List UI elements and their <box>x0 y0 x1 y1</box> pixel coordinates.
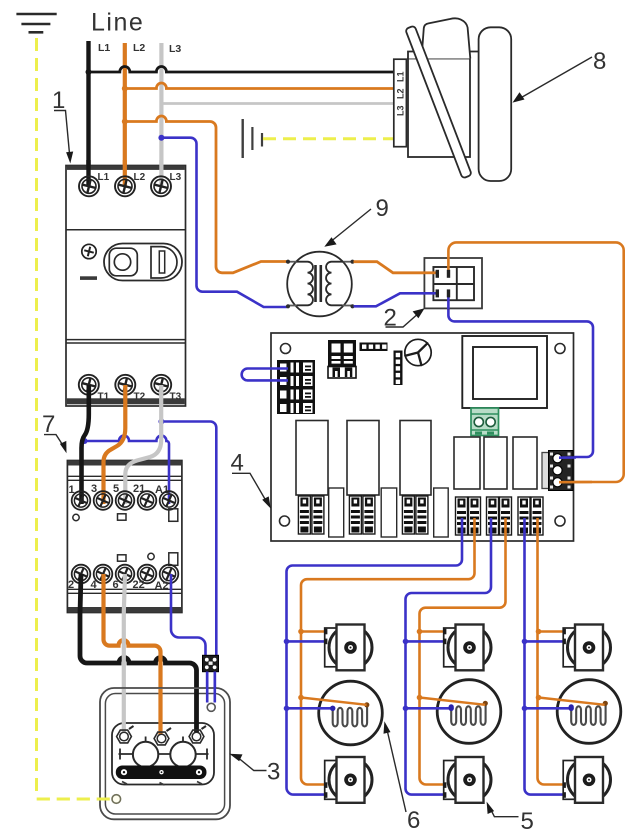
board: mid rect C <box>513 437 537 489</box>
board: relay 2 <box>347 421 379 496</box>
contactor 7: body <box>67 461 181 613</box>
contactor 7: top bar <box>68 461 181 466</box>
breaker terminal labels T1 T2 T3 <box>98 392 182 403</box>
wire: blue tap on gray to far right down (to flange plug) <box>161 422 216 657</box>
wire: L3 feed into screw <box>159 160 163 186</box>
wire: blue transformer to connector 2 <box>354 293 438 306</box>
svg-text:L2: L2 <box>134 172 146 183</box>
connector 2: inner cross box <box>433 267 474 300</box>
breaker 1: switch right button <box>151 247 177 278</box>
svg-text:T3: T3 <box>170 392 182 403</box>
element flange 3: plate <box>112 723 214 785</box>
breaker screw L2 <box>115 176 135 196</box>
element flange 3: hex nut right (black wire) <box>189 726 206 743</box>
board: mid rect B <box>484 437 507 489</box>
board: mid rect A <box>454 437 480 489</box>
wire: L2 feed into screw <box>123 160 127 186</box>
board mounting hole BL <box>280 516 290 526</box>
wire: blue into heater col3 <box>525 707 572 710</box>
board: top connector <box>328 340 356 378</box>
junction dot L2 <box>122 86 128 92</box>
breaker screw T2 <box>115 375 135 395</box>
wire: gray into left nut <box>122 689 126 733</box>
svg-text:L3: L3 <box>169 43 181 55</box>
contactor screw A1 <box>160 491 179 510</box>
contactor marks lower <box>118 555 127 561</box>
breaker 1: top bar <box>67 166 185 170</box>
wire: blue board out 3 to column 3 <box>525 518 576 795</box>
element flange 3: screw tips below bar <box>122 782 202 786</box>
wire: orange slant into heater col1 <box>301 698 367 705</box>
wire: blue board out 1 to column 1 <box>287 518 463 795</box>
element flange 3: hex nut left (gray wire) <box>117 726 134 743</box>
board: relay 1 <box>296 421 328 496</box>
plug 8: left ledge <box>408 52 419 59</box>
breaker screw T1 <box>79 375 99 395</box>
wire: black into right nut <box>194 689 199 733</box>
board: narrow rect 3 <box>434 488 449 537</box>
board mounting hole BR <box>555 516 565 526</box>
wire: blue stubs over flange <box>207 672 215 703</box>
wire: gray pole 6 down to flange left nut <box>124 574 125 732</box>
contactor screw A2 <box>160 565 179 584</box>
wire: blue branch to thermostat top col2 <box>406 640 445 643</box>
breaker terminal labels L1 L2 L3 <box>98 172 182 183</box>
svg-text:6: 6 <box>113 579 119 591</box>
svg-text:4: 4 <box>91 579 98 591</box>
svg-text:A2: A2 <box>155 580 169 592</box>
svg-text:Line: Line <box>91 9 144 37</box>
wire: yellow dashed to plug <box>263 137 394 140</box>
junction dot L1 <box>86 69 92 75</box>
junction dot blue on gray <box>158 419 164 425</box>
contactor pole labels top <box>69 483 170 496</box>
board mounting hole TR <box>555 344 565 354</box>
board: 4-pin header <box>360 343 388 352</box>
board: 5-pin vertical header <box>394 351 403 386</box>
connector 2: pins <box>436 270 451 298</box>
svg-text:8: 8 <box>593 48 606 75</box>
wire: orange branch to thermostat top col3 <box>539 630 564 633</box>
wire: orange board out 2 to column 2 <box>420 518 506 785</box>
contactor screw 21 <box>138 491 157 510</box>
breaker screw L3 <box>151 176 171 196</box>
breaker 1: small screw mid <box>82 244 96 258</box>
wire: L1 feed into screw <box>86 160 90 186</box>
board: terminal group right 1 <box>456 497 468 535</box>
breaker 1: mid divider <box>66 229 186 231</box>
ground (earth) symbol top-left <box>16 14 56 32</box>
contactor screw 2 <box>72 565 91 584</box>
junction dot blue on black <box>82 438 88 444</box>
heater circle col2 <box>437 680 501 744</box>
board: fan symbol <box>405 339 431 365</box>
wire: blue board out 2 to column 2 <box>406 518 492 795</box>
breaker 1: small bar <box>80 276 97 280</box>
wire: blue out of connector 2 bottom pin <box>447 296 450 309</box>
svg-text:9: 9 <box>376 195 389 222</box>
wire: black T1 to contactor pole 1 <box>82 385 89 504</box>
wire: orange into connector 2 top pin <box>447 257 450 272</box>
element flange 3: inner box <box>105 694 224 815</box>
element flange 3: hex nut mid (orange wire) <box>154 728 171 745</box>
plug connector (small square) <box>203 655 219 671</box>
board: terminal group under relay1 <box>298 496 310 534</box>
svg-text:L3: L3 <box>396 105 406 116</box>
contactor 7: lower double line <box>67 588 181 590</box>
wire: blue stubs below plug connector <box>207 672 215 701</box>
breaker 1: bottom bar <box>67 398 185 404</box>
contactor screw 4 <box>94 565 113 584</box>
wire: orange into terminal circle <box>559 481 592 484</box>
svg-text:L2: L2 <box>396 88 406 99</box>
board mounting hole TL <box>281 344 291 354</box>
svg-text:3: 3 <box>267 759 280 786</box>
board: terminal group under relay2 <box>349 496 361 534</box>
wire: orange transformer to connector 2 <box>354 262 438 273</box>
wire: blue connector 2 down and right to board terminal <box>448 298 593 457</box>
wire: gray L3 horizontal to plug <box>161 102 394 105</box>
contactor 7: bottom bar <box>68 607 181 613</box>
wire: orange board out 3 to column 3 <box>538 518 576 785</box>
svg-text:6: 6 <box>407 807 420 832</box>
thermostat bottom col2 <box>444 757 491 803</box>
heater circle col1 <box>319 681 383 745</box>
wire: blue branch to thermostat top col1 <box>287 640 326 643</box>
wire: orange connector 2 up and right to board terminal <box>448 242 623 482</box>
contactor 7: upper double line <box>67 475 181 477</box>
contactor screw 6 <box>116 565 135 584</box>
board: green terminal under display <box>471 408 499 436</box>
element flange 3: earth screw circle <box>112 795 121 804</box>
connector 2: outer box <box>424 258 482 308</box>
contactor screw 5 <box>116 491 135 510</box>
control board 4: pcb outline <box>271 333 574 541</box>
contactor screw 3 <box>94 491 113 510</box>
wire: blue into terminal circle <box>559 456 576 459</box>
transformer 9: windings and core <box>297 262 343 306</box>
contactor screw 22 <box>138 565 157 584</box>
element flange 3: outer box <box>100 688 230 819</box>
wire: blue into A1 screw <box>168 446 171 504</box>
svg-text:L2: L2 <box>133 42 145 54</box>
svg-text:L1: L1 <box>98 172 110 183</box>
wire: black pole 2 down to flange right nut <box>80 574 197 732</box>
svg-text:L1: L1 <box>98 42 110 54</box>
board: terminal group right 2 <box>487 497 499 535</box>
wire: orange board out 1 to column 1 <box>301 518 475 785</box>
plug 8: strip labels <box>396 71 406 116</box>
wire: yellow dashed earth, left side down to element flange <box>37 38 112 799</box>
wire: orange T2 to contactor pole 3 <box>104 385 126 504</box>
wire: orange into connector 2 left pin <box>423 271 437 274</box>
wire: orange branch L2 down to transformer <box>125 116 287 273</box>
board: display outer <box>462 336 547 408</box>
board: terminal group under relay3 <box>402 496 414 534</box>
wire: blue into heater col2 <box>406 707 452 710</box>
contactor marks upper <box>73 514 79 520</box>
thermostat top col2 <box>444 625 491 671</box>
wire: yellow dashed into earth screw <box>37 798 112 801</box>
breaker 1: lower double divider <box>66 339 186 341</box>
wire: orange slant into heater col3 <box>539 698 605 705</box>
thermostat top col1 <box>325 625 372 671</box>
breaker 1: switch stadium <box>104 244 182 281</box>
contactor pole labels bottom <box>68 579 169 592</box>
svg-text:L1: L1 <box>396 71 406 82</box>
wire: blue tap on black to contactor A1 <box>84 436 170 446</box>
element flange 3: big circle right <box>170 742 195 767</box>
terminal circle below plug connector (over flange) <box>207 703 215 711</box>
transformer 9: circle <box>287 252 352 317</box>
chassis ground symbol (rotated) <box>243 119 262 158</box>
junction dot L3 blue tap <box>158 135 164 141</box>
wire: orange branch to thermostat top col2 <box>420 630 445 633</box>
svg-text:T1: T1 <box>98 392 110 403</box>
plug 8: right ledge <box>470 52 481 59</box>
wire: L3 vertical feed (gray) <box>159 43 163 186</box>
heater circle col3 <box>557 680 621 744</box>
board: right 3-pole terminal block <box>542 451 573 491</box>
plug 8: right cap <box>479 27 512 181</box>
wire: blue branch L3 down to transformer <box>161 138 287 307</box>
plug 8: main body <box>408 59 470 158</box>
wire: black L1 horizontal to plug <box>89 67 395 72</box>
wire: orange branch to thermostat top col1 <box>301 630 325 633</box>
wire: orange pole 4 down to flange mid nut <box>104 574 161 734</box>
wire: orange L2 horizontal to plug <box>125 83 394 88</box>
board: narrow rect 2 <box>381 488 397 537</box>
breaker 1: body <box>66 166 186 407</box>
element flange 3: bus bar <box>116 766 207 780</box>
svg-text:22: 22 <box>133 579 145 591</box>
wire: blue jumper loop at board left <box>242 369 288 381</box>
plug 8: top tab <box>422 18 471 58</box>
thermostat bottom col1 <box>325 757 372 803</box>
svg-text:4: 4 <box>231 450 244 477</box>
breaker screw L1 <box>79 176 99 196</box>
svg-text:T2: T2 <box>134 392 146 403</box>
thermostat top col3 <box>563 625 610 671</box>
breaker screw T3 <box>151 375 171 395</box>
board: display inner <box>473 347 537 399</box>
svg-text:L3: L3 <box>170 172 182 183</box>
wire: orange slant into heater col2 <box>420 698 486 705</box>
transformer 9: terminal stubs <box>287 262 354 306</box>
plug 8: diagonal lever <box>405 26 472 179</box>
board: terminal group right 3 <box>518 497 530 535</box>
wire: L1 vertical feed (black) <box>86 41 90 186</box>
contactor screw 1 <box>72 491 91 510</box>
terminal circle below plug connector <box>207 703 215 711</box>
board: left connector block <box>277 360 315 414</box>
wire: gray T3 to contactor pole 5 <box>125 385 161 504</box>
breaker 1: switch left button <box>109 248 137 276</box>
plug 8: terminal strip <box>394 59 407 147</box>
wire: blue into heater col1 <box>287 707 333 710</box>
wire: L2 vertical feed (orange) <box>123 43 127 186</box>
svg-text:5: 5 <box>521 808 534 832</box>
wire: orange into mid nut <box>158 689 162 735</box>
board: narrow rect 1 <box>329 488 344 537</box>
wire: blue branch to thermostat top col3 <box>525 640 564 643</box>
junction dot L2 branch <box>122 119 128 125</box>
wire: blue into connector 2 left pin <box>423 292 437 295</box>
wire: blue A2 down to plug connector <box>171 574 206 656</box>
svg-text:2: 2 <box>68 579 74 591</box>
board: relay 3 <box>400 421 431 496</box>
thermostat bottom col3 <box>563 757 610 803</box>
element flange 3: crossbar and stems <box>119 737 209 760</box>
element flange 3: big circle left <box>133 742 158 767</box>
